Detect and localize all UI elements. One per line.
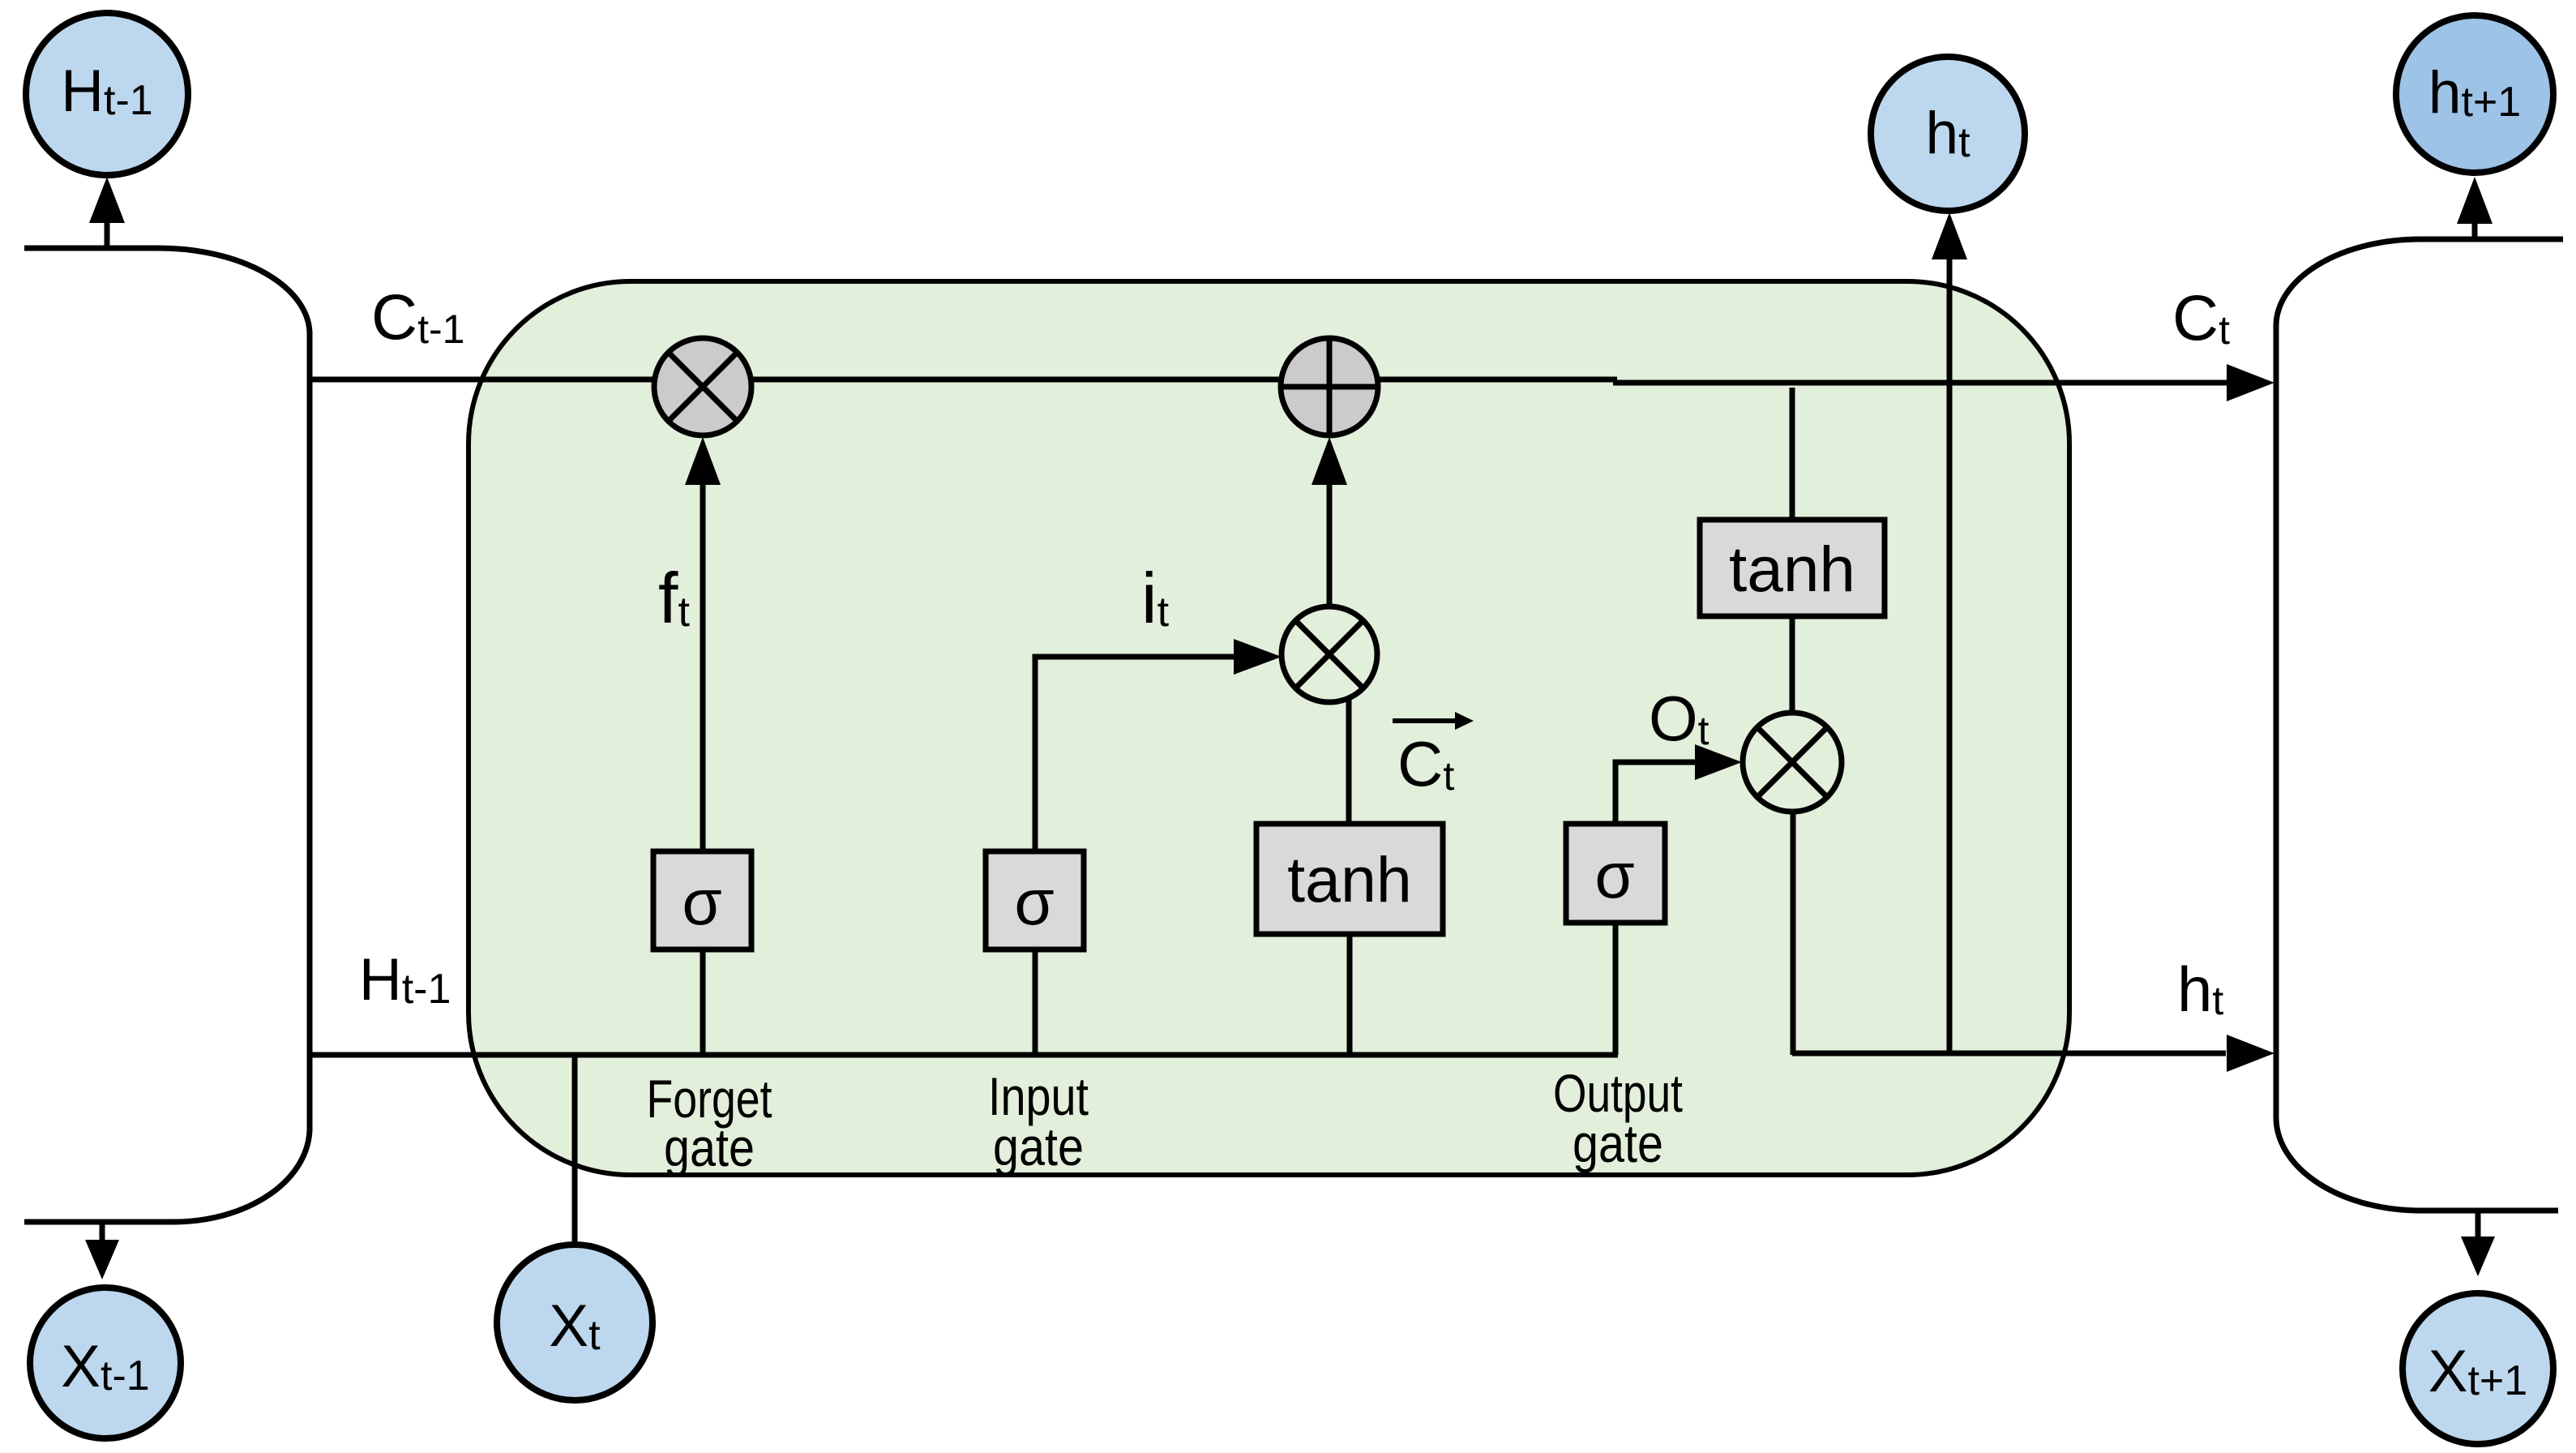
svg-text:σ: σ [1014, 866, 1054, 938]
svg-text:tanh: tanh [1729, 533, 1855, 605]
wire: sigma input down to H line [1033, 949, 1038, 1055]
tanh box (output path) [1700, 520, 1885, 616]
wire: h t branch up from H line to h t circle [1947, 259, 1953, 1055]
circle X t-1 [30, 1288, 181, 1438]
svg-text:ht: ht [2177, 954, 2223, 1025]
svg-text:Ct-1: Ct-1 [371, 281, 464, 353]
sigma box: input gate [986, 851, 1084, 949]
svg-text:σ: σ [682, 866, 721, 938]
left container bracket (previous timestep cell outline) [24, 248, 310, 1222]
wire: sigma forget down to H line [700, 949, 706, 1055]
wire i t elbow: sigma input up then right to multiply node [1035, 657, 1234, 851]
node: forget gate multiply (circle-X on C line) [654, 338, 751, 435]
wire: output multiply node down to H line [1791, 812, 1796, 1055]
wire: upper tanh down to output multiply node [1790, 616, 1795, 713]
node: output multiply (circle-X right) [1743, 713, 1842, 812]
label C~t with vector arrow [1393, 712, 1474, 799]
node: add (circle-plus on C line) [1281, 338, 1378, 435]
wire: arrow down to X t+1 circle [2475, 1211, 2481, 1239]
wire f t : sigma forget up to multiply node [700, 485, 706, 851]
circle h t [1871, 57, 2025, 211]
wire: sigma output down to H line [1613, 923, 1619, 1055]
circle H t-1 [26, 13, 188, 175]
circle h t+1 [2396, 15, 2553, 173]
svg-text:gate: gate [664, 1117, 755, 1177]
wire: arrow up to h t+1 circle [2472, 219, 2478, 239]
cell state line C (horizontal top wire) [310, 377, 1617, 383]
tanh box (candidate) [1256, 824, 1443, 934]
svg-text:gate: gate [1573, 1113, 1663, 1173]
sigma box: forget gate [653, 851, 751, 949]
wire O t elbow: sigma output up then right to output multiply node [1615, 762, 1695, 824]
node: candidate multiply (circle-X mid) [1282, 606, 1377, 702]
svg-text:Ct: Ct [2172, 281, 2230, 354]
green LSTM cell body [469, 281, 2069, 1175]
svg-text:Ht-1: Ht-1 [359, 947, 451, 1013]
wire from X t up to H line [572, 1055, 578, 1246]
circle X t+1 [2403, 1293, 2553, 1444]
hidden state line H (horizontal bottom wire) [310, 1052, 1618, 1058]
wire: tanh box up to candidate multiply node [1346, 697, 1352, 824]
sigma box: output gate [1566, 824, 1665, 923]
circle X t [497, 1245, 653, 1400]
wire: arrow down to X t-1 input circle [100, 1222, 105, 1242]
svg-text:tanh: tanh [1287, 843, 1412, 915]
right container bracket (next timestep cell outline) [2276, 239, 2563, 1211]
wire: C line down to upper tanh box [1790, 388, 1795, 520]
wire: candidate multiply node up to add node [1327, 485, 1333, 606]
wire: tanh box down to H line [1347, 934, 1353, 1055]
svg-text:σ: σ [1594, 839, 1634, 911]
wire: arrow up to H t-1 output circle [105, 216, 110, 248]
svg-text:gate: gate [993, 1117, 1084, 1177]
